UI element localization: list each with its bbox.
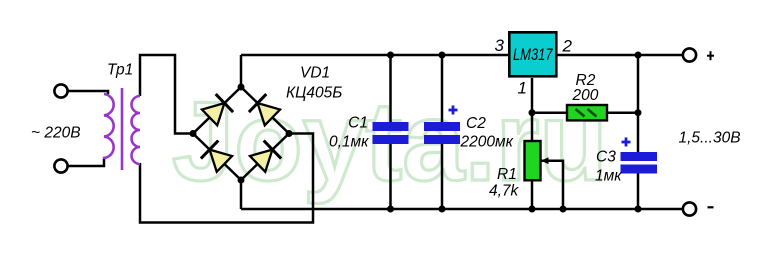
transformer Tr1 secondary winding: [132, 96, 141, 164]
output terminal minus: [683, 202, 696, 215]
junction node bottom rail C1: [387, 206, 394, 213]
capacitor C2 plus sign: [449, 106, 458, 115]
junction node bottom rail C3: [635, 206, 642, 213]
junction node top rail C2: [439, 52, 446, 59]
diode D2 top-right (cathode to top): [249, 94, 281, 126]
svg-text:0,1мк: 0,1мк: [329, 134, 369, 151]
junction node pin1 R2: [529, 109, 536, 116]
wire bottom minus rail: [241, 208, 682, 211]
diode D3 bottom-left (cathode to left): [201, 141, 233, 173]
svg-text:200: 200: [572, 87, 599, 104]
transformer Tr1 primary winding: [104, 94, 114, 159]
capacitor C1 plates: [373, 122, 409, 144]
resistor R2 power marks: [576, 109, 597, 117]
svg-text:3: 3: [495, 36, 505, 55]
svg-text:С2: С2: [466, 115, 486, 132]
diode D1 top-left (cathode to top): [201, 94, 233, 126]
svg-text:1,5...30В: 1,5...30В: [679, 130, 741, 147]
capacitor C3 plus sign: [622, 138, 631, 147]
svg-text:С3: С3: [596, 149, 616, 166]
wire LM317 output to plus terminal: [557, 54, 682, 57]
input terminal top: [54, 84, 67, 97]
junction node output line C3: [635, 52, 642, 59]
svg-text:1: 1: [518, 79, 527, 98]
wire secondary top to bridge left corner: [140, 55, 193, 134]
svg-text:С1: С1: [348, 115, 368, 132]
junction node top rail C1: [387, 52, 394, 59]
svg-text:КЦ405Б: КЦ405Б: [286, 85, 342, 102]
capacitor C2 plates: [424, 122, 460, 144]
wire input top: [68, 91, 108, 94]
wire R2 right: [607, 111, 638, 114]
bridge VD1 edge bottom-right: [241, 134, 289, 181]
junction node bottom rail C2: [439, 206, 446, 213]
svg-text:2: 2: [562, 37, 573, 56]
wire bridge bottom to minus rail: [240, 180, 243, 209]
bridge VD1 edge top-left: [193, 87, 241, 134]
label plus: [707, 51, 714, 60]
wire input bottom: [68, 159, 104, 166]
junction node R2 C3: [635, 109, 642, 116]
svg-text:2200мк: 2200мк: [460, 134, 514, 151]
bridge VD1 edge bottom-left: [193, 134, 241, 181]
wire R1 wiper to minus rail: [541, 161, 564, 209]
capacitor C3 plates: [621, 152, 658, 174]
watermark joyta.ru: [172, 77, 608, 206]
wire top plus rail: [241, 54, 508, 57]
svg-text:LM317: LM317: [513, 46, 553, 64]
svg-text:VD1: VD1: [300, 65, 330, 82]
junction node bridge top: [238, 84, 245, 91]
wire bridge top to plus rail: [240, 55, 243, 87]
wire R1 bottom: [531, 180, 534, 209]
diode D4 bottom-right (cathode to right): [249, 141, 281, 173]
bridge VD1 edge top-right: [241, 87, 289, 134]
transformer core: [121, 88, 124, 170]
output terminal plus: [683, 48, 696, 61]
wire LM317 pin1 down: [531, 78, 534, 141]
svg-text:~ 220В: ~ 220В: [31, 125, 81, 142]
wire C2 branch: [441, 55, 444, 209]
wire secondary bottom to bridge right corner: [140, 134, 313, 223]
wire R2 left: [532, 111, 567, 114]
potentiometer R1 wiper arrow: [541, 157, 549, 164]
input terminal bottom: [54, 159, 67, 172]
junction node bottom rail wiper: [560, 206, 567, 213]
potentiometer R1 body: [525, 141, 541, 180]
label minus: [708, 206, 714, 208]
svg-text:1мк: 1мк: [595, 168, 622, 185]
regulator U1 LM317 body: [509, 32, 556, 76]
svg-text:4,7k: 4,7k: [489, 183, 520, 200]
wire C1 branch: [389, 55, 392, 209]
junction node bridge bottom: [238, 177, 245, 184]
junction node bridge right: [286, 130, 293, 137]
svg-text:Тр1: Тр1: [107, 62, 133, 79]
wire C3 branch: [637, 55, 640, 209]
junction node bottom rail R1: [529, 206, 536, 213]
svg-text:R1: R1: [497, 166, 517, 183]
junction node bridge left: [190, 130, 197, 137]
resistor R2 body: [567, 105, 607, 120]
